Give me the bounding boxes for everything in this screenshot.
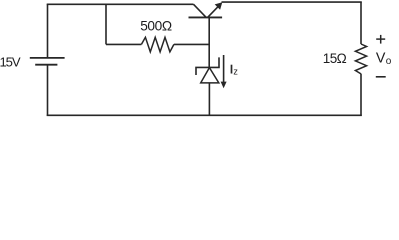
svg-text:15Ω: 15Ω xyxy=(323,51,347,66)
current arrow Iz xyxy=(221,55,227,88)
wire bottom rail xyxy=(47,114,362,116)
wire top-left rail xyxy=(47,3,194,5)
wire branch vertical at node B top xyxy=(105,4,107,44)
label I of Iz xyxy=(231,65,233,74)
label plus of Vo xyxy=(376,35,385,44)
resistor R1 500ohm xyxy=(141,37,174,52)
battery 15V xyxy=(30,58,65,65)
transistor Q1 xyxy=(189,4,223,17)
zener diode DZ xyxy=(196,57,219,83)
wire top-right rail xyxy=(222,1,362,3)
wire zener anode to bottom rail xyxy=(208,83,210,115)
svg-text:15V: 15V xyxy=(0,55,21,70)
svg-text:z: z xyxy=(233,67,238,77)
svg-text:o: o xyxy=(386,56,392,67)
wire right rail upper xyxy=(360,2,362,44)
wire left rail lower xyxy=(47,65,49,116)
wire R1 to base node xyxy=(174,43,210,45)
wire left rail upper xyxy=(47,4,49,57)
resistor R2 15ohm xyxy=(355,44,366,74)
transistor Q1 emitter arrowhead xyxy=(215,2,223,10)
wire base lead (node B) xyxy=(208,17,210,67)
svg-text:500Ω: 500Ω xyxy=(140,19,172,34)
wire right rail lower xyxy=(360,74,362,116)
label minus of Vo xyxy=(376,76,386,78)
svg-text:V: V xyxy=(376,51,386,67)
wire branch horizontal to R1 xyxy=(106,43,141,45)
